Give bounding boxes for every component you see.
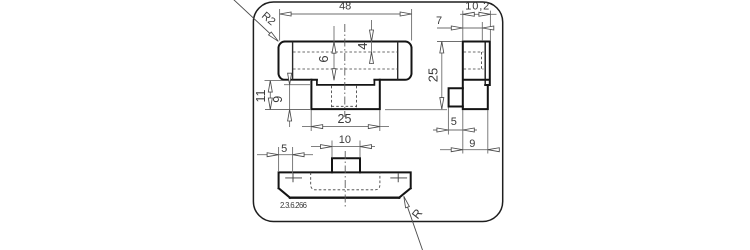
- dimension 5 left: [257, 143, 313, 174]
- side view outline: [463, 42, 490, 110]
- dimension 25 bottom: [302, 110, 389, 131]
- svg-text:7: 7: [436, 15, 442, 27]
- leader R bottom: [402, 196, 426, 250]
- svg-text:5: 5: [451, 116, 457, 128]
- front view hidden lines: [293, 52, 398, 69]
- side view hidden lines: [464, 52, 484, 69]
- drawing frame: [253, 2, 502, 222]
- front view step recess: [317, 80, 375, 85]
- svg-text:4: 4: [355, 43, 370, 50]
- front view tangent edges: [293, 42, 398, 80]
- leader R2: [233, 0, 280, 43]
- dimension 9 right: [440, 110, 499, 154]
- bottom view tab: [332, 158, 360, 172]
- svg-text:5: 5: [281, 143, 287, 155]
- svg-text:48: 48: [339, 0, 351, 12]
- dimension 6: [316, 26, 336, 80]
- svg-text:25: 25: [338, 112, 352, 126]
- dimension 9 left: [271, 73, 311, 127]
- front view centerline: [344, 24, 346, 117]
- bottom view centerline: [344, 151, 346, 209]
- svg-text:2.3.6.266: 2.3.6.266: [280, 201, 307, 210]
- svg-text:9: 9: [271, 96, 285, 103]
- bottom view hidden channel: [311, 172, 380, 189]
- svg-text:25: 25: [425, 68, 440, 82]
- dimension 7: [436, 15, 494, 41]
- bottom view outline: [279, 172, 411, 197]
- dimension 11: [254, 81, 311, 110]
- front view hidden slot: [332, 86, 357, 108]
- svg-text:10: 10: [339, 134, 351, 146]
- svg-text:10,2: 10,2: [465, 1, 490, 13]
- dimension 48: [280, 0, 412, 40]
- part number text: [280, 201, 307, 210]
- svg-text:6: 6: [316, 55, 331, 62]
- dimension 4: [355, 20, 374, 64]
- dimension 10: [311, 134, 375, 158]
- dimension 25 side: [385, 42, 462, 110]
- dimension 10,2: [460, 1, 497, 41]
- front view stem: [311, 80, 379, 109]
- svg-text:11: 11: [254, 89, 268, 102]
- svg-text:9: 9: [469, 138, 475, 150]
- bottom view center mark right: [390, 174, 407, 183]
- dimension 5 right: [433, 108, 477, 154]
- side view lip edge: [484, 42, 486, 86]
- side view small block: [449, 88, 463, 106]
- front view outline: [279, 42, 412, 80]
- bottom view center mark left: [285, 174, 302, 183]
